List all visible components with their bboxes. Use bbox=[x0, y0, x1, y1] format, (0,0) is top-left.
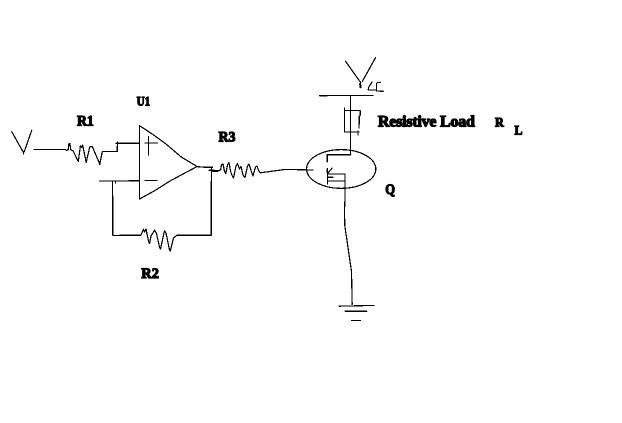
svg-text:Resistive Load: Resistive Load bbox=[378, 114, 475, 131]
svg-text:R1: R1 bbox=[77, 114, 94, 130]
label cc subscript bbox=[368, 82, 383, 91]
wire R3 to gate of Q bbox=[260, 169, 313, 172]
transistor Q body ellipse bbox=[307, 150, 376, 189]
op-amp minus pin bbox=[145, 179, 157, 181]
resistor R2 bbox=[141, 229, 177, 251]
svg-text:L: L bbox=[515, 122, 523, 137]
transistor Q gate bar bbox=[326, 154, 328, 184]
ground bbox=[339, 305, 374, 320]
power rail Vcc bbox=[320, 94, 373, 96]
wire op-amp output bbox=[197, 166, 213, 169]
junction tick at output node bbox=[209, 169, 214, 171]
wire output node to R3 lead bbox=[213, 170, 218, 172]
resistor R1 bbox=[66, 144, 103, 165]
svg-text:R: R bbox=[495, 114, 504, 129]
wire rail through load to drain bbox=[349, 96, 351, 155]
junction tick on inverting input bbox=[114, 181, 116, 183]
transistor Q source taps bbox=[328, 174, 345, 194]
wire Vin to R1 bbox=[34, 148, 66, 150]
transistor Q source arrow bbox=[328, 168, 333, 177]
resistor R3 bbox=[218, 163, 261, 178]
node Vin input source V symbol bbox=[12, 130, 32, 154]
op-amp U1 bbox=[139, 126, 197, 199]
wire source to ground bbox=[345, 194, 353, 304]
wire feedback left leg bbox=[113, 181, 141, 235]
svg-text:U1: U1 bbox=[137, 94, 151, 109]
power Vcc symbol bbox=[346, 58, 376, 88]
transistor Q drain tap bbox=[327, 154, 351, 156]
wire inverting input bbox=[99, 180, 139, 182]
resistor Resistive Load RL box bbox=[344, 108, 360, 135]
wire R1 to op-amp non-inverting input bbox=[102, 142, 139, 152]
op-amp plus pin bbox=[145, 136, 158, 154]
wire feedback right leg to output bbox=[177, 167, 212, 235]
svg-text:Q: Q bbox=[385, 182, 395, 198]
svg-text:R3: R3 bbox=[219, 130, 236, 146]
svg-text:R2: R2 bbox=[141, 266, 159, 282]
